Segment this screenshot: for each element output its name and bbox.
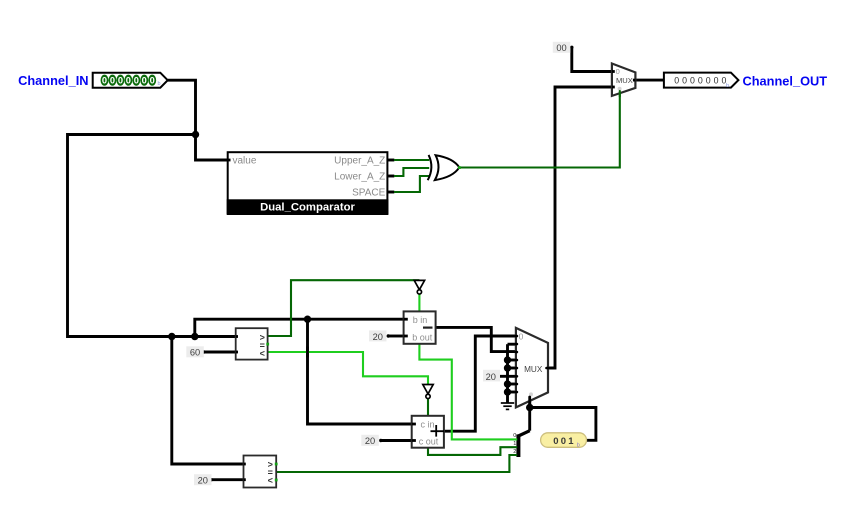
svg-text:c out: c out [419,437,439,447]
svg-text:0: 0 [616,67,620,76]
svg-text:b: b [726,83,729,89]
svg-text:Channel_OUT: Channel_OUT [743,73,828,88]
svg-text:b: b [158,81,161,87]
svg-text:b out: b out [412,333,433,343]
svg-text:<: < [260,348,265,358]
svg-text:0: 0 [110,76,115,86]
svg-text:c in: c in [420,420,434,430]
svg-text:0: 0 [118,76,123,86]
svg-text:0: 0 [142,76,147,86]
svg-text:001: 001 [553,436,575,447]
svg-text:MUX: MUX [616,76,633,85]
svg-text:0000000: 0000000 [674,76,729,86]
svg-text:20: 20 [486,372,496,382]
svg-text:Channel_IN: Channel_IN [18,73,88,88]
svg-text:b: b [577,442,580,448]
svg-text:Lower_A_Z: Lower_A_Z [334,172,385,183]
svg-text:0: 0 [513,433,516,439]
svg-text:20: 20 [365,436,375,446]
svg-text:2: 2 [513,449,516,455]
svg-text:1: 1 [513,441,516,447]
svg-text:60: 60 [190,348,200,358]
svg-text:00: 00 [556,43,566,53]
svg-text:0: 0 [134,76,139,86]
svg-text:value: value [233,156,257,167]
svg-text:20: 20 [198,476,208,486]
svg-text:Dual_Comparator: Dual_Comparator [260,202,355,214]
svg-text:0: 0 [102,76,107,86]
svg-text:0: 0 [126,76,131,86]
svg-text:0: 0 [519,331,524,341]
svg-text:20: 20 [373,332,383,342]
svg-text:0: 0 [150,76,155,86]
svg-text:b in: b in [413,315,428,325]
svg-text:SPACE: SPACE [352,188,385,199]
svg-text:<: < [268,475,273,485]
svg-text:MUX: MUX [524,365,543,374]
svg-text:Upper_A_Z: Upper_A_Z [334,156,385,167]
